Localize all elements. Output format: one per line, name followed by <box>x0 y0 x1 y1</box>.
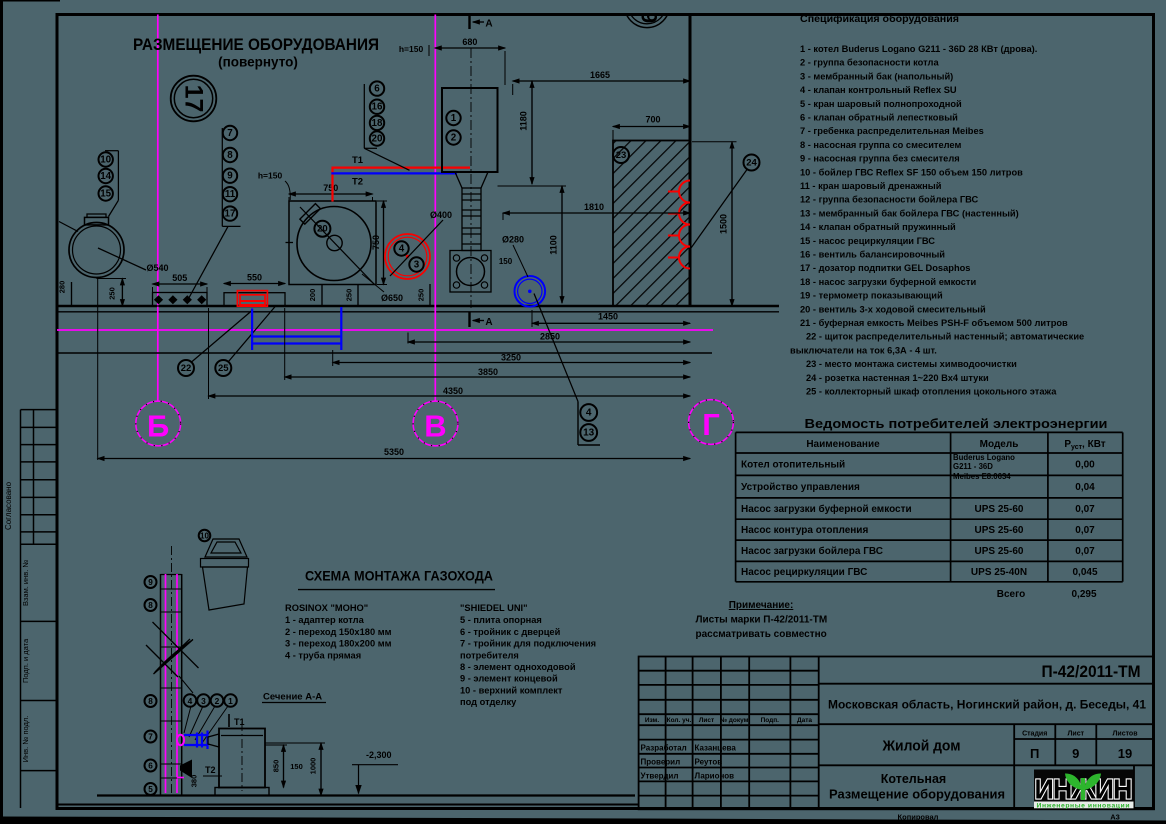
svg-text:3: 3 <box>201 696 206 706</box>
svg-text:UPS 25-40N: UPS 25-40N <box>971 567 1027 578</box>
svg-text:Стадия: Стадия <box>1022 731 1047 738</box>
svg-text:Лист: Лист <box>699 717 714 724</box>
svg-text:Насос контура отопления: Насос контура отопления <box>741 525 868 536</box>
svg-text:Котельная: Котельная <box>881 772 946 786</box>
svg-text:А: А <box>485 19 492 30</box>
svg-text:750: 750 <box>371 235 381 250</box>
svg-text:Б: Б <box>147 409 169 444</box>
svg-text:18: 18 <box>372 118 383 129</box>
svg-text:Ø540: Ø540 <box>146 263 168 273</box>
svg-text:Ведомость потребителей электро: Ведомость потребителей электроэнергии <box>805 417 1108 431</box>
svg-text:UPS 25-60: UPS 25-60 <box>975 525 1024 536</box>
svg-text:3250: 3250 <box>501 353 521 363</box>
svg-text:Дата: Дата <box>797 717 812 724</box>
svg-text:20: 20 <box>372 134 383 145</box>
svg-text:0,07: 0,07 <box>1075 525 1095 536</box>
svg-text:19: 19 <box>1118 746 1132 761</box>
svg-text:3850: 3850 <box>478 367 498 377</box>
svg-text:24: 24 <box>746 158 757 169</box>
svg-text:1 - адаптер котла: 1 - адаптер котла <box>285 615 365 625</box>
svg-text:2 - группа безопасности котла: 2 - группа безопасности котла <box>800 58 939 68</box>
svg-text:150: 150 <box>290 762 303 771</box>
svg-text:2850: 2850 <box>540 332 560 342</box>
svg-text:ROSINOX "МОНО": ROSINOX "МОНО" <box>285 603 368 613</box>
svg-text:11: 11 <box>225 189 236 200</box>
svg-text:Т2: Т2 <box>205 765 216 775</box>
svg-text:1000: 1000 <box>309 758 318 775</box>
svg-text:СХЕМА МОНТАЖА ГАЗОХОДА: СХЕМА МОНТАЖА ГАЗОХОДА <box>305 569 493 584</box>
svg-text:11 - кран шаровый дренажный: 11 - кран шаровый дренажный <box>800 181 942 191</box>
svg-text:17: 17 <box>225 209 236 220</box>
svg-text:Котел отопительный: Котел отопительный <box>741 460 845 471</box>
svg-text:А3: А3 <box>1110 813 1120 822</box>
svg-text:5350: 5350 <box>384 447 404 457</box>
svg-text:Buderus Logano: Buderus Logano <box>953 453 1015 462</box>
svg-text:7: 7 <box>148 733 153 742</box>
svg-text:1: 1 <box>228 696 233 706</box>
svg-text:23 - место монтажа системы хим: 23 - место монтажа системы химводоочистк… <box>806 359 1017 369</box>
svg-text:850: 850 <box>272 760 281 773</box>
svg-text:Листы марки П-42/2011-ТМ: Листы марки П-42/2011-ТМ <box>696 615 828 626</box>
svg-text:0,295: 0,295 <box>1071 589 1096 600</box>
svg-text:8: 8 <box>148 697 153 706</box>
svg-text:h=150: h=150 <box>399 44 424 54</box>
svg-text:505: 505 <box>172 273 187 283</box>
svg-text:Г: Г <box>702 407 720 442</box>
svg-text:1180: 1180 <box>519 111 529 131</box>
svg-text:1810: 1810 <box>584 202 604 212</box>
svg-text:0,07: 0,07 <box>1075 546 1095 557</box>
svg-text:6: 6 <box>374 84 380 95</box>
svg-text:20: 20 <box>317 224 328 235</box>
svg-text:Т1: Т1 <box>234 717 245 727</box>
svg-text:250: 250 <box>108 287 117 300</box>
svg-text:Казанцева: Казанцева <box>695 744 737 753</box>
svg-text:Листов: Листов <box>1112 731 1138 738</box>
svg-text:№ докум.: № докум. <box>720 717 751 724</box>
svg-text:16: 16 <box>372 102 383 113</box>
svg-text:под отделку: под отделку <box>460 697 517 707</box>
svg-text:Насос загрузки бойлера ГВС: Насос загрузки бойлера ГВС <box>741 545 883 557</box>
svg-text:Подп.: Подп. <box>761 717 780 724</box>
svg-text:8: 8 <box>227 150 233 161</box>
svg-text:200: 200 <box>308 289 317 302</box>
svg-text:рассматривать совместно: рассматривать совместно <box>696 629 827 640</box>
svg-text:Реутов: Реутов <box>695 758 723 767</box>
svg-text:(повернуто): (повернуто) <box>218 55 298 70</box>
svg-text:5: 5 <box>148 785 153 794</box>
svg-text:680: 680 <box>462 37 477 47</box>
svg-text:Инв. № подл.: Инв. № подл. <box>21 716 30 763</box>
svg-text:4: 4 <box>399 244 405 255</box>
svg-text:10 - бойлер ГВС Reflex SF 150: 10 - бойлер ГВС Reflex SF 150 объем 150 … <box>800 167 1023 177</box>
svg-text:9: 9 <box>227 171 233 182</box>
svg-text:Проверил: Проверил <box>641 758 681 767</box>
svg-text:"SHIEDEL UNI": "SHIEDEL UNI" <box>460 603 528 613</box>
svg-text:10: 10 <box>200 532 209 541</box>
svg-text:5 - плита опорная: 5 - плита опорная <box>460 615 542 625</box>
svg-text:250: 250 <box>345 289 354 302</box>
svg-text:Насос рециркуляции ГВС: Насос рециркуляции ГВС <box>741 567 867 578</box>
svg-text:Московская область, Ногинский: Московская область, Ногинский район, д. … <box>828 699 1147 712</box>
svg-text:Утвердил: Утвердил <box>641 771 679 780</box>
svg-text:выключатели на ток 6,3А - 4 шт: выключатели на ток 6,3А - 4 шт. <box>790 345 937 355</box>
svg-text:Согласовано: Согласовано <box>4 481 13 530</box>
svg-text:1500: 1500 <box>719 214 729 234</box>
svg-text:9 - элемент концевой: 9 - элемент концевой <box>460 674 558 684</box>
svg-text:7 - гребенка распределительная: 7 - гребенка распределительная Meibes <box>800 126 984 136</box>
svg-text:Лист: Лист <box>1068 731 1085 738</box>
svg-text:1: 1 <box>451 113 457 124</box>
svg-text:3: 3 <box>414 260 420 271</box>
svg-text:Разработал: Разработал <box>641 744 687 753</box>
svg-text:16 - вентиль балансировочный: 16 - вентиль балансировочный <box>800 250 945 260</box>
svg-text:18 - насос загрузки буферной е: 18 - насос загрузки буферной емкости <box>800 277 976 287</box>
svg-text:4: 4 <box>188 696 193 706</box>
svg-text:Жилой дом: Жилой дом <box>882 739 961 755</box>
svg-text:Кол. уч.: Кол. уч. <box>667 717 692 724</box>
svg-text:10: 10 <box>100 155 111 166</box>
svg-text:22: 22 <box>181 363 192 374</box>
svg-text:РАЗМЕЩЕНИЕ ОБОРУДОВАНИЯ: РАЗМЕЩЕНИЕ ОБОРУДОВАНИЯ <box>133 36 379 54</box>
svg-text:Примечание:: Примечание: <box>729 600 794 611</box>
svg-text:Meibes E8.0634: Meibes E8.0634 <box>953 472 1011 481</box>
svg-text:1 - котел Buderus Logano G211: 1 - котел Buderus Logano G211 - 36D 28 К… <box>800 44 1037 54</box>
svg-text:Взам. инв. №: Взам. инв. № <box>21 560 30 606</box>
svg-text:UPS 25-60: UPS 25-60 <box>975 546 1024 557</box>
svg-text:9: 9 <box>1072 746 1079 761</box>
svg-text:Размещение оборудования: Размещение оборудования <box>829 788 1005 802</box>
svg-text:10 - верхний комплект: 10 - верхний комплект <box>460 685 563 695</box>
svg-text:6: 6 <box>148 762 153 771</box>
svg-text:15: 15 <box>100 189 111 200</box>
svg-text:2: 2 <box>215 696 220 706</box>
svg-text:h=150: h=150 <box>258 171 283 181</box>
svg-text:5 - кран шаровый полнопроходно: 5 - кран шаровый полнопроходной <box>800 99 962 109</box>
svg-text:Изм.: Изм. <box>645 717 660 724</box>
svg-text:23: 23 <box>616 150 627 161</box>
svg-text:Руст, КВт: Руст, КВт <box>1064 439 1105 451</box>
svg-text:21 - буферная емкость Meibes P: 21 - буферная емкость Meibes PSH-F объем… <box>800 318 1068 328</box>
svg-text:0,045: 0,045 <box>1072 567 1097 578</box>
svg-text:Насос загрузки буферной емкост: Насос загрузки буферной емкости <box>741 503 912 515</box>
svg-text:13: 13 <box>583 428 595 439</box>
svg-text:Ø650: Ø650 <box>381 293 403 303</box>
svg-text:П-42/2011-ТМ: П-42/2011-ТМ <box>1042 663 1141 681</box>
svg-text:550: 550 <box>247 273 262 283</box>
svg-text:8 - насосная группа со смесите: 8 - насосная группа со смесителем <box>800 140 961 150</box>
svg-text:20 - вентиль 3-х ходовой смеси: 20 - вентиль 3-х ходовой смесительный <box>800 304 986 314</box>
svg-text:9 - насосная группа без смесит: 9 - насосная группа без смесителя <box>800 154 960 164</box>
svg-text:4: 4 <box>586 408 592 419</box>
svg-text:150: 150 <box>499 257 513 266</box>
svg-text:24 - розетка настенная 1~220 В: 24 - розетка настенная 1~220 Вх4 штуки <box>806 373 989 383</box>
svg-text:13 - мембранный бак бойлера ГВ: 13 - мембранный бак бойлера ГВС (настенн… <box>800 208 1019 218</box>
svg-text:UPS 25-60: UPS 25-60 <box>975 504 1024 515</box>
svg-text:19 - термометр показывающий: 19 - термометр показывающий <box>800 291 943 301</box>
svg-text:Наименование: Наименование <box>806 439 880 450</box>
svg-text:3 - мембранный бак (напольный: 3 - мембранный бак (напольный) <box>800 71 953 81</box>
svg-text:17 - дозатор подпитки GEL Dosa: 17 - дозатор подпитки GEL Dosaphos <box>800 263 970 273</box>
svg-text:П: П <box>1030 746 1039 761</box>
svg-text:2: 2 <box>451 133 457 144</box>
svg-text:7: 7 <box>227 128 233 139</box>
svg-text:9: 9 <box>148 578 153 587</box>
svg-text:280: 280 <box>58 281 67 294</box>
svg-text:В: В <box>424 409 446 444</box>
svg-text:3 - переход 180х200 мм: 3 - переход 180х200 мм <box>285 639 392 649</box>
svg-text:8 - элемент одноходовой: 8 - элемент одноходовой <box>460 662 576 672</box>
svg-text:4 - труба прямая: 4 - труба прямая <box>285 650 361 660</box>
svg-text:1665: 1665 <box>590 70 610 80</box>
svg-text:G211 - 36D: G211 - 36D <box>953 462 993 471</box>
svg-text:250: 250 <box>417 289 426 302</box>
svg-text:8: 8 <box>148 601 153 610</box>
svg-text:750: 750 <box>323 183 338 193</box>
svg-text:22 - щиток распределительный н: 22 - щиток распределительный настенный; … <box>806 332 1084 342</box>
svg-text:Ø400: Ø400 <box>430 210 452 220</box>
svg-text:2 - переход 150х180 мм: 2 - переход 150х180 мм <box>285 627 392 637</box>
svg-text:0,04: 0,04 <box>1075 482 1095 493</box>
svg-text:0,00: 0,00 <box>1075 460 1095 471</box>
svg-text:1450: 1450 <box>598 312 618 322</box>
svg-text:700: 700 <box>645 115 660 125</box>
svg-text:0,07: 0,07 <box>1075 504 1095 515</box>
svg-text:Ларионов: Ларионов <box>695 771 735 780</box>
svg-text:6 - тройник с дверцей: 6 - тройник с дверцей <box>460 627 561 637</box>
svg-text:25 - коллекторный шкаф отоплен: 25 - коллекторный шкаф отопления цокольн… <box>806 387 1057 397</box>
svg-text:17: 17 <box>180 85 208 113</box>
svg-text:Сечение А-А: Сечение А-А <box>263 692 322 703</box>
svg-text:А: А <box>485 317 492 328</box>
svg-text:1100: 1100 <box>549 235 559 255</box>
svg-text:6 - клапан обратный лепестковы: 6 - клапан обратный лепестковый <box>800 113 958 123</box>
svg-text:7 - тройник для подключения: 7 - тройник для подключения <box>460 639 596 649</box>
svg-text:380: 380 <box>190 775 199 788</box>
svg-text:25: 25 <box>218 363 229 374</box>
svg-text:12 - группа безопасности бойле: 12 - группа безопасности бойлера ГВС <box>800 195 978 205</box>
svg-text:потребителя: потребителя <box>460 650 519 660</box>
svg-text:Копировал: Копировал <box>898 813 939 822</box>
svg-text:15 - насос рециркуляции ГВС: 15 - насос рециркуляции ГВС <box>800 236 935 246</box>
svg-text:14: 14 <box>100 171 111 182</box>
svg-text:4350: 4350 <box>443 386 463 396</box>
svg-text:Ø280: Ø280 <box>502 235 524 245</box>
svg-text:Всего: Всего <box>997 589 1026 600</box>
svg-text:Подп. и дата: Подп. и дата <box>21 638 30 683</box>
svg-text:Т2: Т2 <box>352 177 363 188</box>
svg-text:Устройство управления: Устройство управления <box>741 482 860 493</box>
svg-text:Инженерные инновации: Инженерные инновации <box>1037 802 1130 809</box>
svg-text:Спецификация оборудования: Спецификация оборудования <box>800 13 959 25</box>
svg-text:Т1: Т1 <box>352 155 364 166</box>
svg-text:4 - клапан контрольный Reflex: 4 - клапан контрольный Reflex SU <box>800 85 957 95</box>
svg-text:Модель: Модель <box>980 439 1019 450</box>
svg-text:14 - клапан обратный пружинный: 14 - клапан обратный пружинный <box>800 222 956 232</box>
svg-text:-2,300: -2,300 <box>366 750 392 760</box>
